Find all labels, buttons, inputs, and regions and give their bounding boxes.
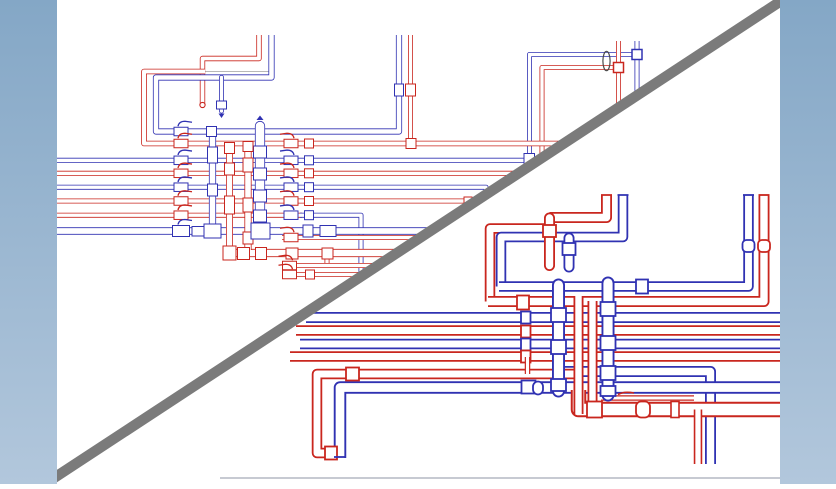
valve left y187.2 <box>174 183 188 192</box>
thick blue inlet loop <box>501 195 623 287</box>
faint sheet bottom edge <box>220 477 780 479</box>
union right y201 <box>305 197 314 206</box>
union y274 <box>306 270 315 279</box>
valve on main <box>173 226 190 237</box>
right blue riser coupling <box>743 240 755 252</box>
thick red drop capsule x549 <box>544 218 555 266</box>
thin blue capped drop <box>219 78 224 112</box>
thin blue vertical x637 to band <box>635 41 640 101</box>
thin red line y265 <box>284 263 374 268</box>
valve left y173.3 <box>174 169 188 178</box>
main tee riser4 <box>251 223 270 239</box>
wide red union d <box>256 248 267 260</box>
thick red riser x592 <box>588 301 598 417</box>
wide red union a <box>286 248 298 259</box>
manifold union a <box>587 402 602 418</box>
union on blue main B <box>522 381 536 394</box>
valve right y215.2 <box>284 211 298 220</box>
union right y187.2 <box>305 183 314 192</box>
H2 union b <box>601 336 616 350</box>
elbow fitting x529 y156 <box>524 154 535 166</box>
valve left y143.5 <box>174 139 188 148</box>
thin blue loop <box>156 35 399 132</box>
coupling on blue drop <box>217 101 227 109</box>
red capsule union <box>543 225 556 237</box>
thin blue pipe: right loop to left-edge line y158 <box>57 55 637 161</box>
valve right y143.5 <box>284 139 298 148</box>
thin red riser x410 <box>408 35 413 144</box>
main tee riser1 <box>204 224 221 238</box>
thin red riser3 x248 <box>244 145 251 250</box>
coupling on blue x399 <box>395 84 404 96</box>
end fitting red y199 <box>464 197 472 205</box>
tee fitting x618 y67 <box>614 63 624 73</box>
thick red drop from manifold <box>694 410 703 465</box>
pipe end ticks <box>601 194 612 196</box>
union right y143.5 <box>305 139 314 148</box>
valve left y215.2 <box>174 211 188 220</box>
thick red inlet from open end <box>550 195 607 218</box>
faint gray connector line <box>204 71 270 73</box>
wide red union b <box>322 248 333 259</box>
valve right y160.3 <box>284 156 298 165</box>
thick blue hub riser H1 <box>552 285 565 391</box>
thick blue bundle line 3 <box>300 339 780 350</box>
thick red thin pipe above manifold <box>601 395 694 401</box>
ellipse valve symbol <box>603 51 610 70</box>
riser2 top fitting <box>225 143 235 154</box>
manifold joint c <box>671 402 679 418</box>
main union small <box>192 227 204 237</box>
union on blue long run <box>636 280 648 294</box>
valve left y131.5 <box>174 127 188 136</box>
thick red bundle line 2 <box>296 325 780 336</box>
union on red y374 <box>346 368 359 381</box>
union bundle4 <box>521 351 531 363</box>
red L end union <box>325 447 337 460</box>
right red riser coupling <box>758 240 770 252</box>
blue capsule union <box>563 243 576 255</box>
valve left y201 <box>174 197 188 206</box>
tee fitting x637 y54 <box>632 50 642 60</box>
union right y215.2 <box>305 211 314 220</box>
thick blue long run y286 to right riser <box>499 195 749 287</box>
thin red vertical x618 to band <box>616 41 621 113</box>
union right y160.3 <box>305 156 314 165</box>
thin red line y237 <box>282 235 428 240</box>
thin red line y274 <box>284 272 362 277</box>
thick red drop bundle4 to red L <box>525 357 531 374</box>
thick red riser x578 <box>574 296 584 414</box>
riser2 union a <box>225 163 235 175</box>
manifold union b <box>636 402 650 418</box>
riser4 union d <box>254 210 267 222</box>
union on red long run <box>517 296 529 310</box>
thick blue main A with right drop <box>560 372 711 465</box>
union bundle2 <box>521 326 531 338</box>
valve right y201 <box>284 197 298 206</box>
thin blue riser4 x260 (large) <box>255 126 265 233</box>
thin red tee branch + line y143 <box>144 72 560 144</box>
main union x328 <box>320 226 336 237</box>
thick red long run y301 to right riser <box>488 195 764 302</box>
H1 union b <box>551 340 566 354</box>
thin red pipe: right loop to left-edge line y171 <box>57 68 619 174</box>
riser1 top fitting <box>207 127 217 137</box>
thin red riser2 x229 <box>226 145 233 251</box>
valve right y173.3 <box>284 169 298 178</box>
wide red elbow fitting <box>223 246 236 260</box>
thick red bundle line 4 <box>290 351 780 362</box>
corner fitting x411 y143 <box>406 139 416 149</box>
thin red line y199 <box>57 199 476 204</box>
riser4 union b <box>254 168 267 180</box>
H2 union c <box>601 366 616 380</box>
thin red drop from wide pipe <box>325 253 330 266</box>
thin red wide pipe y253 <box>224 249 406 257</box>
H1 bottom tee <box>551 379 566 391</box>
valve y274 <box>283 270 297 279</box>
riser2 union b <box>225 196 235 214</box>
H2 union a <box>601 302 616 316</box>
thin blue line y215 right with drop to band <box>300 215 361 277</box>
union right y173.3 <box>305 169 314 178</box>
thin red line y213 left <box>57 213 302 218</box>
H1 union a <box>551 308 566 322</box>
union on main x308 <box>303 225 313 237</box>
riser3 union b <box>243 198 253 212</box>
thick blue bundle line 1 <box>306 312 780 323</box>
thin blue riser1 x212 <box>209 132 216 234</box>
thick red L pipe left <box>317 374 578 453</box>
H2 bottom tee <box>601 386 616 396</box>
riser3 union c <box>243 232 253 244</box>
riser4 union c <box>254 190 267 202</box>
coupling on red x410 <box>406 84 416 96</box>
valve right y237.5 <box>284 233 298 242</box>
riser4 union a <box>254 146 267 158</box>
bell union on blue main B <box>533 382 543 395</box>
thick blue drop capsule x569 <box>564 238 575 267</box>
union bundle1 <box>521 312 531 324</box>
thick red manifold with left elbow up <box>579 390 781 410</box>
thick blue main B <box>340 388 780 459</box>
thin blue main y228 <box>57 227 436 234</box>
thick blue hub riser H2 <box>602 283 615 395</box>
wide red union c <box>238 248 250 260</box>
riser3 top fitting <box>243 142 253 152</box>
valve y265 <box>283 261 297 270</box>
thick red left loop <box>490 229 552 302</box>
riser3 union a <box>243 158 253 172</box>
riser1 union a <box>208 147 218 163</box>
union bundle3 <box>521 339 531 351</box>
valve right y187.2 <box>284 183 298 192</box>
thin red pipe with capped drop <box>203 35 260 104</box>
thin blue line y186 <box>57 187 486 200</box>
riser1 union b <box>208 184 218 196</box>
valve left y160.3 <box>174 156 188 165</box>
